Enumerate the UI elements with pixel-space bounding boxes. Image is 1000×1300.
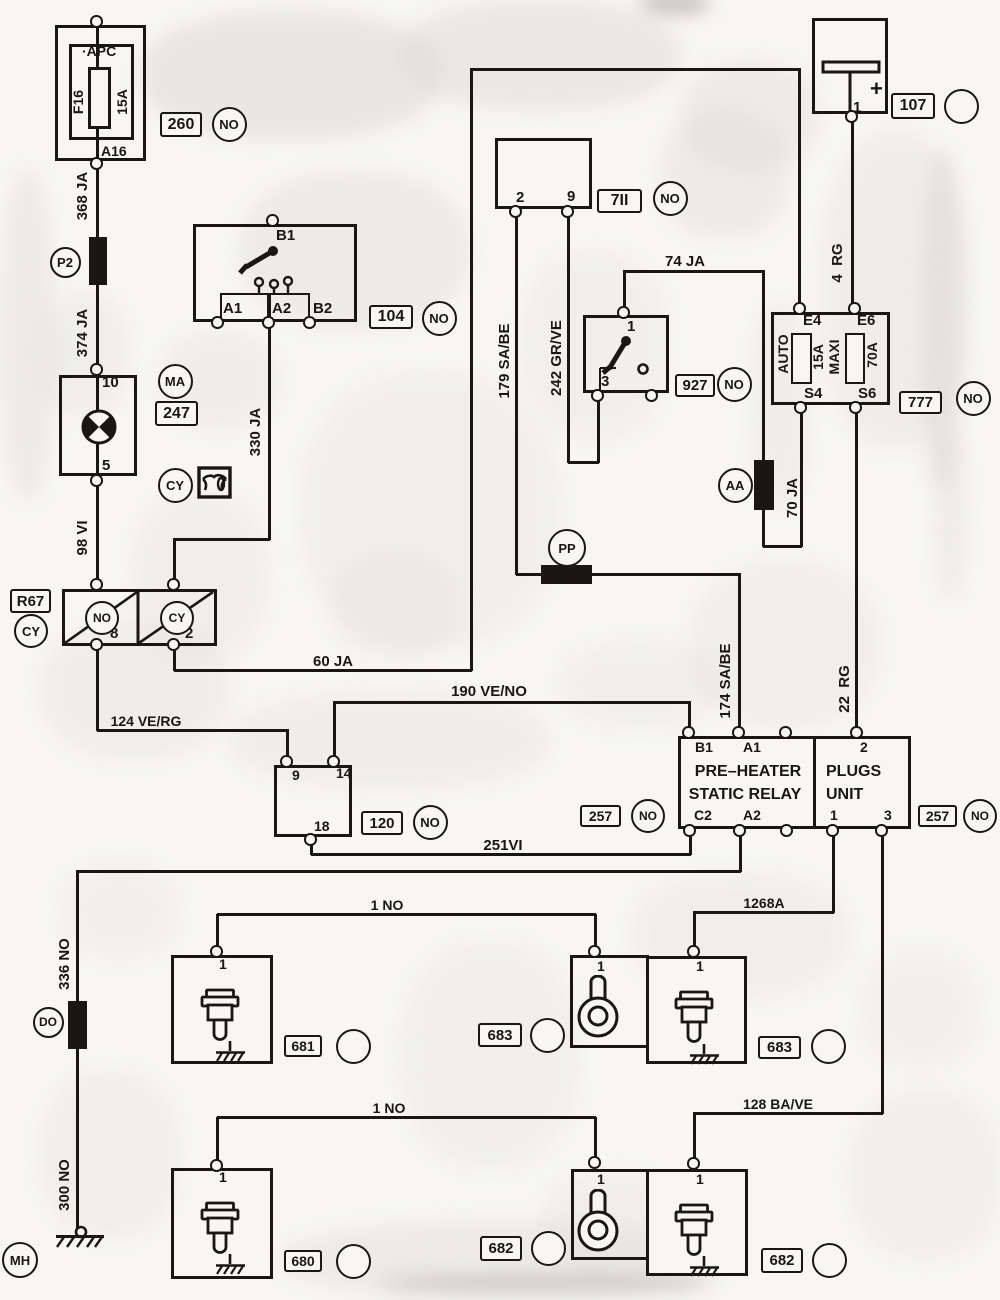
svg-text:+: + xyxy=(870,76,883,101)
